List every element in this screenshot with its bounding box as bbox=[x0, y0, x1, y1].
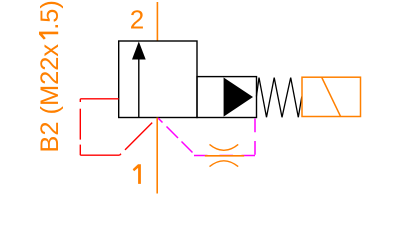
spring bbox=[256, 78, 301, 118]
drain line horizontal upper (red) bbox=[80, 98, 118, 100]
test coupling lower arc bbox=[210, 161, 239, 167]
test coupling line bbox=[205, 155, 244, 157]
svg-text:2: 2 bbox=[130, 5, 144, 35]
drain line vertical dash 1 (red) bbox=[79, 99, 81, 102]
drain line diagonal dash (red) bbox=[125, 123, 152, 150]
drain line vertical dash 3 (red) bbox=[79, 145, 81, 156]
pilot line diagonal dash 3 bbox=[182, 142, 193, 153]
solenoid diagonal bbox=[322, 78, 341, 117]
flow arrow head bbox=[132, 42, 146, 60]
pilot line diagonal dash 2 bbox=[167, 127, 179, 139]
check valve poppet triangle bbox=[224, 78, 253, 117]
port label 1 bbox=[133, 164, 141, 184]
pilot line horizontal dash c bbox=[194, 155, 208, 157]
drain line diagonal tick (red) bbox=[120, 154, 122, 156]
svg-text:.5): .5) bbox=[36, 0, 64, 30]
check valve box bbox=[197, 77, 257, 118]
flow arrow stem bbox=[138, 57, 140, 118]
label B2 (M22x1.5) bbox=[36, 0, 64, 152]
test coupling upper arc bbox=[210, 144, 239, 150]
pilot line vertical dashed (spring chamber) bbox=[254, 119, 256, 156]
pilot line horizontal dash a bbox=[242, 155, 256, 157]
port line 2 bbox=[156, 2, 158, 41]
drain line horizontal lower (red) bbox=[80, 154, 119, 156]
valve body bbox=[119, 41, 197, 118]
pilot line diagonal dash 1 bbox=[158, 118, 163, 123]
drain line vertical dash 2 (red) bbox=[79, 109, 81, 140]
port line 1 bbox=[156, 118, 158, 194]
pilot line horizontal dash b bbox=[220, 155, 234, 157]
svg-text:B2 (M22x: B2 (M22x bbox=[36, 44, 64, 153]
solenoid box bbox=[302, 77, 361, 116]
